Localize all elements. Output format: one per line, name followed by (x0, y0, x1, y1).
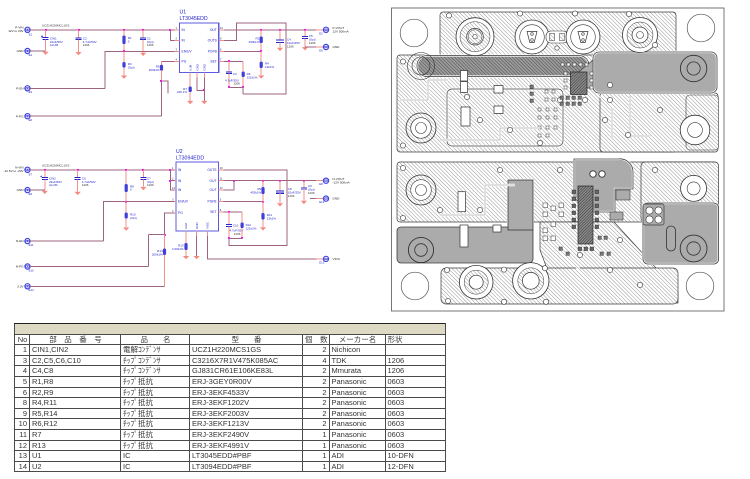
label R13 4.99k1% (172, 243, 184, 250)
label C8 10uF/25V 1206 (288, 187, 301, 198)
svg-text:E11: E11 (29, 243, 34, 247)
resistor R7 (189, 78, 192, 101)
PCB bottom-left gray plane (397, 180, 533, 263)
svg-text:4: 4 (172, 209, 174, 213)
svg-text:7: 7 (220, 57, 222, 61)
label C7 (Opt) 1206 (147, 177, 154, 188)
svg-text:GND: GND (333, 197, 341, 201)
node junction OUT2-C8 (279, 180, 281, 182)
resistor R9 (261, 181, 264, 202)
wire EN net U1 (105, 51, 175, 88)
U1 pin 10 OUT (210, 26, 224, 32)
wire GND to E12 (310, 198, 324, 200)
label C9 (Opt) 1206 (308, 184, 315, 195)
wire OUTS kelvin loop (224, 23, 286, 94)
PCB pad circle (640,35) (623, 18, 658, 53)
PCB pad circle with rings (475,37) (456, 18, 494, 56)
PCB dark pads U1 cluster (530, 85, 581, 105)
capacitor CIN2 (40, 170, 48, 190)
PCB dark cross-hatched band (408, 53, 590, 80)
svg-text:2: 2 (176, 37, 178, 41)
svg-text:C3: C3 (233, 72, 237, 76)
ground below R10 (123, 227, 129, 230)
svg-text:1206: 1206 (288, 194, 295, 198)
terminal E13 VIOC (316, 256, 329, 261)
label C2 4.7uF/50V 1206 (83, 37, 97, 48)
svg-text:5: 5 (220, 198, 222, 202)
terminal E2 P-VOUT (316, 27, 329, 32)
U2 pin 4 PG (171, 209, 183, 215)
svg-text:E14: E14 (29, 288, 34, 292)
svg-text:UCZ1H220MCL1GS: UCZ1H220MCL1GS (42, 164, 69, 168)
wire SET net U1 (224, 60, 243, 62)
svg-text:OUT: OUT (210, 179, 217, 183)
terminal E14 3.3V (25, 284, 30, 289)
node junction EN2-R8 (125, 201, 127, 203)
resistor R3 (122, 51, 125, 75)
svg-text:121k1%: 121k1% (246, 227, 257, 231)
svg-text:E2: E2 (319, 31, 323, 35)
U1 pin 6 PGFB (208, 47, 224, 53)
ground below R7 (187, 101, 193, 104)
capacitor C10 (226, 212, 232, 238)
svg-text:GND: GND (195, 63, 199, 71)
resistor R4 (260, 51, 263, 75)
label VIOC E13 (319, 257, 341, 265)
PCB mounting hole (421,128) (406, 113, 436, 143)
PCB top-right gray plane (575, 52, 717, 93)
svg-text:1: 1 (172, 166, 174, 170)
terminal E10 N-PG (25, 264, 30, 269)
node junction rail2-C7 (142, 169, 144, 171)
terminal E6 P-PG (25, 114, 30, 119)
wire R5 stub right (162, 81, 169, 94)
svg-text:E8: E8 (319, 182, 323, 186)
capacitor C6 (75, 170, 81, 192)
IC U2 LT3094EDD box (176, 162, 219, 231)
wire E4 to CIN1 (30, 50, 46, 52)
label R3 (Opt) (128, 62, 135, 69)
node junction SET2-C10 (228, 211, 230, 213)
svg-text:10: 10 (220, 26, 223, 30)
U1 pin ILIM (bottom) (188, 64, 192, 77)
capacitor C4 (276, 30, 284, 48)
terminal E9 GND (25, 188, 30, 193)
capacitor C5 (302, 30, 308, 47)
svg-text:1206: 1206 (308, 191, 315, 195)
svg-text:E1: E1 (29, 33, 33, 37)
svg-text:11: 11 (220, 177, 223, 181)
PCB U2 DFN footprint strip (572, 186, 599, 251)
wire input rail VIN2 (30, 169, 175, 171)
U1 pin 3 EN/UV (175, 47, 193, 53)
svg-text:9: 9 (220, 37, 222, 41)
svg-text:8: 8 (220, 208, 222, 212)
PCB trace channels top pour (400, 80, 650, 140)
ground below R11 (260, 227, 266, 230)
wire P-PG net (30, 115, 162, 117)
PCB bottom-right gray plane (643, 203, 719, 264)
svg-text:LT3094EDD: LT3094EDD (176, 156, 204, 162)
label GND E12 (319, 197, 340, 204)
wire C10-R12 bottoms (229, 237, 242, 239)
label C10 4.7uF/35V 1206 (230, 223, 244, 236)
ground below R4 (258, 75, 264, 78)
svg-text:12k1%: 12k1% (267, 217, 277, 221)
U2 pin 11 OUT (210, 177, 224, 183)
wire OUT rail U2 (224, 180, 324, 182)
svg-text:SET: SET (210, 210, 216, 214)
node junction rail2-C6 (77, 169, 79, 171)
node junction PGFB-R2 (260, 50, 262, 52)
label R10 (Opt) (130, 212, 137, 219)
svg-text:N-EN: N-EN (16, 239, 24, 243)
label R12 121k1% (246, 223, 257, 230)
U2 pin 1 IN (171, 166, 182, 172)
wire P-EN net (30, 87, 105, 89)
label P-VIN 12V to 20V (8, 25, 32, 36)
U1 reference label (180, 10, 187, 16)
svg-text:E13: E13 (319, 261, 324, 265)
ground below U1 GND pins (201, 101, 207, 104)
node junction EN-R1 (123, 50, 125, 52)
resistor R11 (261, 202, 264, 227)
node junction rail2-R8 (125, 169, 127, 171)
svg-text:OUT: OUT (210, 188, 217, 192)
node junction rail-C2 (78, 29, 80, 31)
U2 pin GND (bottom) (195, 222, 199, 237)
U2 pin 2 IN (171, 177, 182, 183)
svg-text:LT3045EDD: LT3045EDD (180, 16, 208, 22)
label UCZ1H220MCL1GS (42, 24, 69, 28)
PCB small component footprints bottom (458, 192, 501, 247)
ground below CIN2 (42, 191, 48, 194)
ground below C4 (277, 48, 283, 51)
label R9 453k1% (250, 187, 261, 194)
svg-text:E12: E12 (319, 200, 324, 204)
PCB corner hole bottom-right (686, 272, 714, 300)
svg-text:1206: 1206 (233, 82, 240, 86)
svg-text:-12V 500mA: -12V 500mA (333, 180, 351, 184)
label CIN2 22uF/50V ALUM (49, 177, 62, 188)
PCB dumbbell pad left (532,37) (515, 20, 549, 54)
U2 pin 13 IN (171, 186, 182, 192)
svg-text:U1: U1 (180, 10, 187, 16)
PCB vias bottom half (400, 165, 657, 304)
wire GND to E5 (305, 46, 324, 48)
U2 pin 12 OUT (210, 186, 224, 192)
node junction pin2 chain (169, 180, 171, 182)
node junction rail2-CIN2 (44, 169, 46, 171)
node junction rail-CIN1 (45, 29, 47, 31)
wire R5 to P-PG line (161, 81, 163, 116)
U1 pin 2 IN (175, 37, 186, 43)
PCB bottom-right hatched block (641, 162, 719, 222)
wire pin12 to OUT rail (224, 181, 234, 190)
svg-text:1206: 1206 (234, 232, 241, 236)
node junction R6 bottom (242, 86, 244, 88)
svg-text:1206: 1206 (83, 43, 90, 47)
svg-text:C10: C10 (233, 223, 239, 227)
capacitor C9 (301, 181, 307, 201)
wire N-EN net (30, 240, 104, 242)
U2 pin VIOC (bottom) (206, 221, 210, 236)
resistor R10 (125, 202, 128, 228)
label R2 453k1% (249, 37, 260, 44)
svg-text:453k1%: 453k1% (249, 40, 260, 44)
label C3 4.7uF/35V 1206 (225, 72, 240, 86)
svg-text:2: 2 (172, 177, 174, 181)
capacitor C2 (76, 30, 82, 52)
wire U1 GND pin bridge (197, 78, 204, 91)
label C1 (Opt) 1206 (147, 37, 154, 48)
node junction R12 bottom (241, 237, 243, 239)
svg-text:1206: 1206 (147, 43, 154, 47)
node junction OUT-C4 (279, 29, 281, 31)
PCB corner hole top-right (687, 14, 715, 42)
PCB board outline (392, 8, 725, 311)
PCB top inner island outline (447, 89, 563, 146)
svg-text:-12.5V to -20V: -12.5V to -20V (4, 169, 25, 173)
label C4 10uF/25V 1206 (287, 38, 300, 49)
svg-text:3: 3 (172, 198, 174, 202)
label P-EN E3 (16, 86, 32, 94)
label R11 12k1% (267, 213, 277, 220)
PCB corner hole top-left (400, 19, 428, 47)
label R1 0 (128, 36, 132, 43)
ground below C5 (302, 47, 308, 50)
PCB small component footprints top (461, 71, 504, 127)
svg-text:3.3V: 3.3V (17, 284, 24, 288)
resistor R2 (260, 30, 263, 52)
PCB dumbbell pad right (583,37) (566, 20, 600, 54)
label UCZ1H220MCL1GS (U2) (42, 164, 69, 168)
node junction R5 bottom (160, 80, 162, 82)
wire SET net U2 (224, 211, 243, 213)
node junction OUT2-R9 (262, 180, 264, 182)
U2 value label LT3094EDD (176, 156, 204, 162)
U2 reference label (176, 149, 183, 155)
svg-text:PGFB: PGFB (208, 200, 218, 204)
svg-text:13: 13 (172, 186, 175, 190)
svg-text:GND: GND (17, 188, 25, 192)
svg-text:ALUM: ALUM (49, 183, 58, 187)
wire PGFB net U2 (224, 201, 264, 203)
PCB bottom copper pour (hatched) (397, 162, 718, 303)
U2 pin 5 PGFB (208, 198, 224, 204)
label R5 200k1% (149, 65, 160, 72)
terminal E1 P-VIN (25, 27, 30, 32)
ground below CIN1 (43, 52, 49, 55)
wire VIOC net (208, 236, 324, 259)
PCB vias top half (400, 11, 662, 148)
ground below C6 (75, 192, 81, 195)
wire U2 GND pin down (196, 236, 198, 256)
terminal E3 P-EN (25, 86, 30, 91)
resistor R1 (122, 30, 125, 52)
node junction OUT2 pin12 (233, 180, 235, 182)
svg-text:PG: PG (178, 211, 183, 215)
wire E9 to CIN2 (30, 189, 45, 191)
node junction OUT-C5 (304, 29, 306, 31)
U1 pin GND (bottom) (195, 63, 199, 78)
svg-text:1206: 1206 (287, 44, 294, 48)
svg-text:P-EN: P-EN (16, 86, 23, 90)
label C6 4.7uF/50V 1206 (82, 177, 96, 188)
ground below C8 (277, 203, 283, 206)
node junction GND pins (203, 89, 205, 91)
U1 value label LT3045EDD (180, 16, 208, 22)
wire OUT rail U1 (224, 29, 324, 31)
svg-text:PG: PG (182, 59, 187, 63)
PCB dumbbell neck (546, 31, 568, 50)
wire rail2 to U2 pins 2 13 (170, 170, 174, 190)
IC U1 LT3045EDD box (180, 23, 219, 73)
U2 pin ILIM (bottom) (184, 223, 188, 236)
svg-text:12V 500mA: 12V 500mA (333, 30, 350, 34)
label N-VOUT -12V 500mA E8 (319, 177, 350, 186)
svg-text:200k1%: 200k1% (149, 68, 160, 72)
label CIN1 22uF/50V ALUM (50, 37, 63, 48)
svg-text:EN/UV: EN/UV (178, 200, 189, 204)
wire EN net U2 (103, 202, 174, 242)
node junction OUT-R2 (260, 29, 262, 31)
svg-text:E7: E7 (29, 173, 33, 177)
PCB U1 thermal pad cluster (538, 63, 593, 137)
svg-text:GND: GND (203, 63, 207, 71)
svg-text:GND: GND (17, 49, 25, 53)
svg-text:4: 4 (176, 57, 178, 61)
capacitor CIN1 (41, 30, 49, 51)
svg-text:UCZ1H220MCL1GS: UCZ1H220MCL1GS (42, 24, 69, 28)
node junction OUT2-C9 (303, 180, 305, 182)
PCB bottom island (hatched) (441, 268, 678, 304)
U2 pin 3 EN/UV (171, 198, 189, 204)
svg-text:12k1%: 12k1% (265, 65, 275, 69)
label GND E9 (17, 188, 33, 196)
wire N-PG net (30, 266, 149, 268)
wire rail to U1 pin 2 (170, 30, 174, 41)
capacitor C1 (140, 30, 146, 53)
label R8 0 (130, 184, 134, 191)
label N-EN E11 (16, 239, 34, 247)
svg-text:OUT: OUT (210, 28, 217, 32)
ground below R13 (183, 256, 189, 259)
ground below C2 (75, 52, 81, 55)
U2 pin 10 OUTS (207, 166, 223, 172)
PCB top copper pour (hatched) (397, 12, 718, 152)
PCB small white pads left of U2 (543, 203, 564, 241)
PCB corner hole bottom-left (401, 272, 429, 300)
svg-text:(Opt): (Opt) (128, 66, 135, 70)
ground below R3 (121, 76, 127, 79)
label R4 12k1% (265, 62, 275, 69)
node junction rail2 to IN2 (169, 169, 171, 171)
wire input rail VIN1 (30, 29, 175, 31)
svg-text:PGFB: PGFB (208, 50, 218, 54)
terminal E7 N-VIN (25, 167, 30, 172)
svg-text:OUTS: OUTS (207, 168, 217, 172)
svg-text:6: 6 (220, 47, 222, 51)
wire N-PG riser (148, 235, 150, 267)
svg-text:ILIM: ILIM (188, 64, 192, 70)
node junction PG2 tap (164, 234, 166, 236)
svg-text:1206: 1206 (147, 183, 154, 187)
U1 pin 7 SET (210, 57, 223, 63)
svg-text:121k1%: 121k1% (247, 76, 258, 80)
label R14 200k1% (152, 249, 163, 256)
svg-text:12V to 20V: 12V to 20V (8, 29, 24, 33)
PCB bottom island pad left (459, 265, 493, 299)
node junction rail-R1 (123, 29, 125, 31)
svg-text:453k1%: 453k1% (250, 191, 261, 195)
svg-text:1206: 1206 (82, 183, 89, 187)
wire C3-R6 bottoms (229, 88, 243, 95)
svg-text:N-PG: N-PG (16, 265, 24, 269)
svg-text:E6: E6 (29, 118, 33, 122)
wire PG tap to N-PG riser (149, 234, 165, 236)
terminal E4 GND (25, 48, 30, 53)
label GND E5 (319, 45, 340, 52)
label GND E4 (17, 49, 33, 57)
U1 pin 1 IN (175, 26, 186, 32)
label N-VIN -12.5V to -20V E7 (4, 165, 33, 176)
node junction C3 bottom (228, 86, 230, 88)
svg-text:4.99k1%: 4.99k1% (172, 247, 184, 251)
wire chain to pin2 (170, 180, 174, 182)
label P-VOUT 12V 500mA E2 (319, 26, 349, 35)
PCB 4-pad cluster (643, 204, 664, 225)
svg-text:3: 3 (176, 47, 178, 51)
U1 pin 9 OUTS (208, 37, 224, 43)
ground below U2 GND pin (194, 256, 200, 259)
svg-text:200k1%: 200k1% (152, 252, 163, 256)
label R7 249 1% (177, 87, 188, 94)
ground below C7 (140, 187, 146, 190)
resistor R14 (163, 235, 166, 287)
svg-text:ALUM: ALUM (50, 43, 59, 47)
wire PG net U2 (165, 213, 175, 235)
svg-text:EN/UV: EN/UV (182, 50, 193, 54)
label N-PG E10 (16, 265, 34, 273)
label R6 121k1% (247, 72, 258, 79)
svg-text:12: 12 (220, 186, 223, 190)
terminal E8 N-VOUT (316, 178, 329, 183)
svg-text:E5: E5 (319, 49, 323, 53)
PCB U2 gray cluster (574, 159, 633, 220)
resistor R12 (241, 212, 244, 238)
capacitor C7 (140, 170, 146, 187)
node junction SET-C3 (228, 60, 230, 62)
wire PG net U1 (162, 60, 175, 62)
U1 pin GND2 (bottom) (203, 63, 207, 78)
svg-text:ILIM: ILIM (184, 223, 188, 229)
svg-text:P-PG: P-PG (16, 114, 24, 118)
PCB mounting hole (421,190) (406, 175, 436, 205)
svg-text:E3: E3 (29, 90, 33, 94)
svg-text:VIOC: VIOC (333, 257, 341, 261)
PCB trace channels bottom pour (440, 185, 590, 280)
PCB dark pads U2 cluster (559, 236, 610, 255)
wire OUTS kelvin loop U2 (224, 170, 288, 246)
svg-text:U2: U2 (176, 149, 183, 155)
capacitor C8 (276, 181, 284, 203)
node junction rail to IN2 (169, 29, 171, 31)
svg-text:GND: GND (195, 222, 199, 230)
svg-text:(Opt): (Opt) (130, 216, 137, 220)
svg-text:1: 1 (176, 26, 178, 30)
PCB right hatched pad block top (680, 95, 718, 150)
